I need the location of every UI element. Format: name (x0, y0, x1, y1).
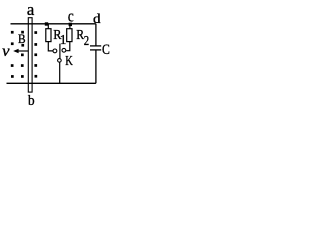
magnetic field dots (B out of page) (11, 31, 37, 78)
junction dot above R1 (45, 22, 48, 25)
svg-text:2: 2 (84, 33, 90, 48)
resistor R1 box (46, 29, 51, 42)
switch K left contact circle (53, 49, 57, 53)
wire: top rail from left end to node d corner (11, 23, 96, 25)
wire: R1 top stub (47, 24, 49, 29)
svg-text:d: d (93, 12, 101, 27)
svg-text:c: c (68, 6, 74, 25)
wire: bottom rail (7, 82, 96, 84)
capacitor C top plate (90, 45, 101, 47)
wire: switch pivot down to bottom rail (59, 62, 61, 83)
svg-text:C: C (102, 42, 110, 58)
svg-text:v: v (2, 43, 10, 60)
node c junction dot (69, 23, 72, 26)
svg-text:b: b (28, 93, 35, 108)
velocity arrow v (17, 50, 29, 52)
background (0, 0, 112, 108)
svg-text:1: 1 (60, 32, 67, 47)
wire: R2 top stub (69, 24, 71, 29)
wire: R2 bottom stub to switch right contact (66, 42, 70, 51)
resistor R2 box (67, 29, 72, 42)
capacitor C bottom plate (90, 49, 101, 51)
svg-text:K: K (65, 54, 73, 69)
switch K blade (open, vertical) (59, 44, 61, 59)
svg-text:B: B (18, 31, 26, 46)
switch K pivot circle (58, 59, 62, 63)
switch K right contact circle (62, 48, 66, 52)
wire: right vertical from d down to capacitor top plate (95, 24, 97, 46)
svg-text:a: a (27, 0, 35, 19)
conducting rod ab (28, 18, 32, 92)
wire: R1 bottom stub to switch left contact (48, 42, 53, 51)
wire: capacitor bottom plate down to bottom rail (95, 50, 97, 83)
